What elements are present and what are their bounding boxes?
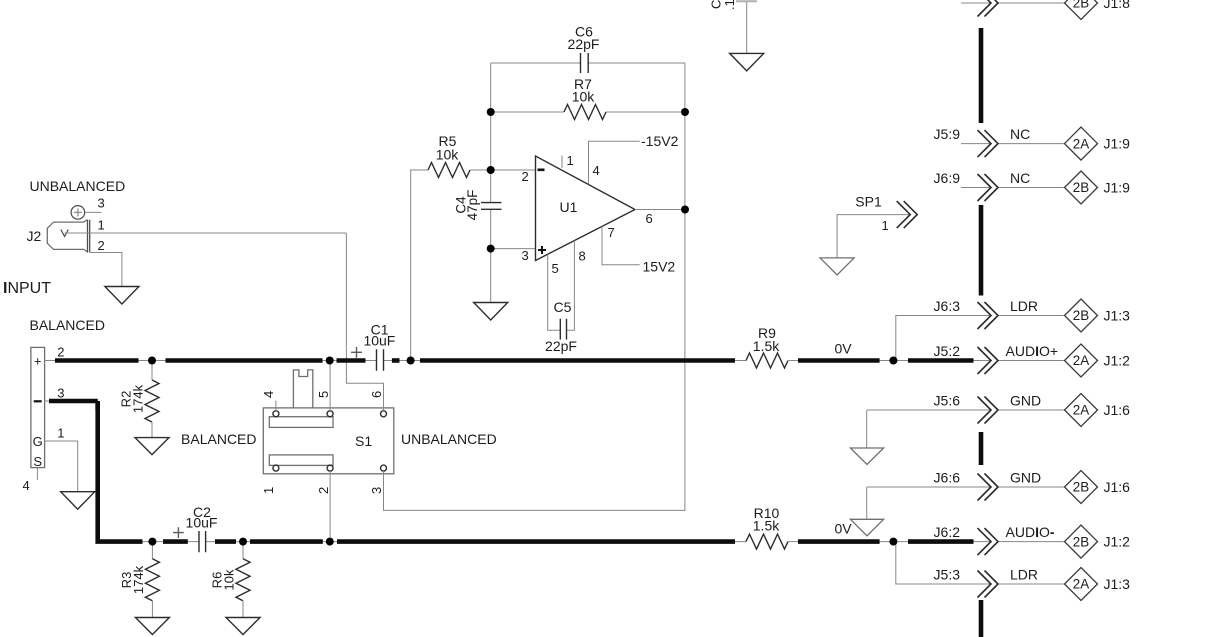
svg-text:U1: U1 [560,199,578,215]
svg-text:10k: 10k [222,569,237,590]
row J6:6 wire [867,486,1065,488]
svg-text:1: 1 [882,218,889,233]
U1 pin 7 wire to 15V2 [602,226,640,264]
junction dot audio+ S1 pin5 [326,357,334,365]
S1 pin 2 circle [327,465,333,471]
U1 pin 1 tick [561,156,563,169]
svg-text:2B: 2B [1073,308,1089,323]
wire audio- pin3 thin underlay [45,401,991,542]
wire non-inverting node to U1 pin 3 [491,248,536,250]
svg-text:2B: 2B [1073,180,1089,195]
J2 tip contact V [61,230,69,237]
svg-text:3: 3 [522,248,529,263]
svg-text:5: 5 [552,261,559,276]
svg-text:GND: GND [1010,470,1041,486]
S1 pin 4 stub [275,401,277,411]
ground (R2) [135,438,169,455]
connector J2 unbalanced jack body [47,220,89,253]
row J5:6 wire [867,409,1065,411]
wire S1 pin 5 to audio+ net [329,361,331,411]
svg-text:1: 1 [98,218,105,233]
row J6:3 diamond 2B [1065,299,1098,332]
svg-text:174k: 174k [131,384,146,413]
svg-text:J5:9: J5:9 [934,126,961,142]
junction dot audio- R6 [239,538,247,546]
svg-text:4: 4 [593,163,600,178]
svg-text:INPUT: INPUT [3,280,51,297]
row J6:6 chevron [978,474,999,501]
svg-text:J1:2: J1:2 [1104,353,1131,369]
svg-text:2: 2 [57,345,64,360]
svg-text:J1:9: J1:9 [1104,180,1131,196]
S1 contact bar bottom [269,455,333,466]
svg-text:BALANCED: BALANCED [30,317,105,333]
junction dot U1 output [681,206,689,214]
row J6:3 chevron [978,302,999,329]
svg-text:22pF: 22pF [545,338,577,354]
svg-text:2: 2 [316,487,331,494]
thick net balanced minus entry [49,401,98,410]
wire inverting input to U1 pin 2 [491,169,536,171]
svg-text:SP1: SP1 [855,194,882,210]
svg-text:S1: S1 [355,433,372,449]
row J6:2 diamond 2B [1065,525,1098,558]
capacitor C4 [481,203,502,210]
junction dot feedback R7 right [681,108,689,116]
junction dot audio+ 0V branch [889,357,897,365]
thick net audio+ segments [55,358,974,363]
svg-text:10k: 10k [572,89,596,105]
ground (SP1) [820,258,854,275]
S1 pin 5 circle [327,411,333,417]
resistor R5 [428,163,470,178]
U1 pin 5 wire to C5 [548,254,561,330]
svg-text:2A: 2A [1073,403,1089,418]
row J6:9 diamond 2B [1065,171,1098,204]
row J1:8 chevron [978,0,999,17]
ground (U1 pin 3 / C4) [474,303,508,321]
svg-text:-15V2: -15V2 [641,133,679,149]
svg-text:1.5k: 1.5k [753,518,780,534]
wire S1 pin 3 to U1 output [384,63,685,510]
svg-text:J1:6: J1:6 [1104,479,1131,495]
row J5:6 diamond 2A [1065,394,1098,427]
op-amp U1 triangle [536,156,636,261]
svg-text:15V2: 15V2 [643,259,676,275]
row J5:3 wire from audio- node [896,542,1065,584]
row J6:9 chevron [978,174,999,201]
S1 actuator lever [293,370,312,408]
S1 pin 4 circle [273,411,279,417]
switch S1 body [263,408,394,474]
svg-text:NC: NC [1010,126,1030,142]
U1 inverting input marker [538,169,545,172]
wire S1 pin 6 to J2 tip [346,233,383,411]
capacitor C1 polarized [351,347,383,371]
svg-text:J2: J2 [27,228,42,244]
S1 pin 3 circle [381,465,387,471]
junction dot audio+ R2 [148,357,156,365]
ground (R6) [226,618,260,635]
ground (J1 pin G) [61,492,95,510]
svg-text:G: G [33,434,43,449]
wire R5 to inverting input node [471,169,491,171]
row J1:8 wire [961,2,1065,4]
svg-text:4: 4 [23,478,30,493]
svg-text:2A: 2A [1073,577,1089,592]
S1 contact bar top [269,417,333,428]
wire S1 pin 2 to audio- net [329,471,331,541]
svg-text:+: + [34,354,42,369]
row J6:9 wire [961,187,1065,189]
svg-text:J5:3: J5:3 [934,567,961,583]
svg-text:J6:3: J6:3 [934,298,961,314]
wire J5:6 to ground [866,410,868,448]
svg-text:2B: 2B [1073,0,1089,11]
svg-text:10k: 10k [436,147,460,163]
resistor R10 [746,534,788,549]
svg-text:J6:9: J6:9 [934,170,961,186]
svg-text:1: 1 [57,426,64,441]
wire C8 to ground [746,2,748,53]
J1 pin S stub [36,468,38,480]
row J6:6 diamond 2B [1065,471,1098,504]
svg-text:6: 6 [369,391,384,398]
resistor R6 [236,542,250,618]
svg-text:J1:6: J1:6 [1104,402,1131,418]
row J6:3 wire from audio+ node [896,316,1065,361]
svg-text:J5:2: J5:2 [934,343,961,359]
S1 pin 6 circle [381,411,387,417]
svg-text:UNBALANCED: UNBALANCED [401,431,497,447]
svg-text:AUDIO+: AUDIO+ [1006,343,1059,359]
ground (J6:6) [850,519,883,536]
wire audio+ net y360 thin underlay [45,360,991,362]
svg-text:1: 1 [261,487,276,494]
J2 pin 3 stub wire [85,211,102,213]
capacitor C2 polarized [173,527,206,552]
svg-text:3: 3 [98,196,105,211]
SP1 wire to ground [837,215,909,258]
svg-text:2B: 2B [1073,480,1089,495]
svg-text:0V: 0V [835,521,853,537]
ground (J5:6) [850,448,883,465]
junction dot feedback R7 left [487,108,495,116]
svg-text:C5: C5 [554,299,572,315]
svg-text:6: 6 [646,211,653,226]
row J5:2 diamond 2A [1065,344,1098,377]
bus segment 4 [979,600,984,637]
row J5:6 chevron [978,397,999,424]
svg-text:1: 1 [567,153,574,168]
wire R7 feedback row [491,111,685,113]
svg-text:J5:6: J5:6 [934,393,961,409]
svg-text:.1uF: .1uF [722,0,737,10]
svg-text:J6:6: J6:6 [934,470,961,486]
resistor R2 [145,361,159,438]
bus segment 2 [979,205,984,296]
capacitor C5 [560,319,566,340]
resistor R3 [145,542,159,618]
svg-text:2B: 2B [1073,534,1089,549]
wire J2 tip to S1 pin 6 (horizontal run) [65,232,347,234]
svg-text:AUDIO-: AUDIO- [1006,524,1055,540]
svg-text:J1:3: J1:3 [1104,576,1131,592]
junction dot audio- R3 [148,538,156,546]
svg-text:J1:8: J1:8 [1104,0,1131,11]
svg-text:J1:2: J1:2 [1104,534,1131,550]
wire R5 input from audio+ node [411,170,428,361]
junction dot audio- S1 pin2 [326,538,334,546]
capacitor C8 plate (cut off at top) [736,0,757,2]
svg-text:2A: 2A [1073,353,1089,368]
J1 pin - label [34,400,42,402]
U1 pin 6 output wire [635,209,685,211]
row J6:2 chevron [978,528,999,555]
row J5:3 chevron [978,571,999,598]
svg-text:J1:9: J1:9 [1104,136,1131,152]
resistor R9 [746,353,788,368]
S1 pin 1 circle [273,465,279,471]
svg-text:1.5k: 1.5k [753,338,780,354]
row J5:2 chevron [978,347,999,374]
connector J1 balanced input box [31,347,45,467]
wire G pin to ground [45,441,78,492]
bus segment 3 [979,432,984,465]
svg-text:3: 3 [57,386,64,401]
wire J6:6 to ground [866,487,868,519]
thick net audio- segments [95,403,973,542]
svg-text:7: 7 [608,225,615,240]
svg-text:2A: 2A [1073,136,1089,151]
junction dot U1 pin3 node [487,245,495,253]
ground (C8) [730,53,764,71]
svg-text:GND: GND [1010,393,1041,409]
U1 pin 4 wire to -15V2 [589,141,640,184]
capacitor C6 [581,53,589,73]
bus segment 1 [979,28,984,123]
svg-text:22pF: 22pF [568,36,600,52]
svg-text:J1:3: J1:3 [1104,308,1131,324]
resistor R7 [564,105,606,120]
svg-text:174k: 174k [131,565,146,594]
svg-text:4: 4 [261,391,276,398]
wire J2 pin 2 to ground [90,253,122,287]
wire C6 top feedback [491,62,685,64]
J2 pin 3 ring terminal circle [71,206,85,220]
row J6:2 wire [998,541,1065,543]
svg-text:47pF: 47pF [465,190,480,221]
row J5:2 wire [998,360,1065,362]
junction dot audio+ C1/R5 [407,357,415,365]
junction dot U1 pin2 node [487,166,495,174]
svg-text:8: 8 [579,249,586,264]
row J5:9 wire [961,143,1065,145]
row J1:8 diamond 2B [1065,0,1098,20]
U1 pin 8 wire to C5 [567,241,575,331]
svg-text:5: 5 [316,391,331,398]
svg-text:NC: NC [1010,170,1030,186]
svg-text:UNBALANCED: UNBALANCED [30,178,126,194]
svg-text:LDR: LDR [1010,567,1038,583]
svg-text:3: 3 [369,487,384,494]
wire feedback left vertical [490,63,492,303]
svg-text:10uF: 10uF [363,332,395,348]
svg-text:2: 2 [522,169,529,184]
ground (R3) [135,618,169,635]
svg-text:LDR: LDR [1010,298,1038,314]
svg-text:0V: 0V [835,341,853,357]
row J5:9 chevron [978,130,999,157]
svg-text:S: S [33,454,42,469]
U1 non-inverting input marker [538,246,546,254]
row J5:3 diamond 2A [1065,568,1098,601]
connector SP1 chevron [897,201,918,228]
row J5:9 diamond 2A [1065,127,1098,160]
ground (J2 sleeve) [105,287,139,305]
svg-text:2: 2 [98,238,105,253]
svg-text:J6:2: J6:2 [934,524,961,540]
svg-text:BALANCED: BALANCED [181,431,256,447]
svg-text:10uF: 10uF [186,515,218,531]
junction dot audio- 0V branch [889,538,897,546]
